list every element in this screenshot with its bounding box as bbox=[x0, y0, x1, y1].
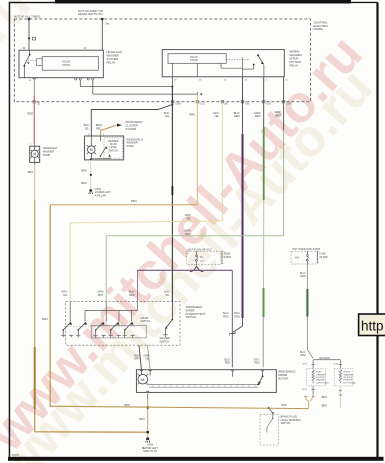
svg-text:PANEL: PANEL bbox=[314, 27, 324, 31]
svg-text:RIGHT: RIGHT bbox=[344, 372, 351, 374]
brake fluid level warning switch tap bbox=[268, 407, 274, 418]
left heater feed pin bbox=[302, 360, 315, 369]
wire BLU/GRY: switch to wiper motor bbox=[139, 345, 141, 370]
wiper switch contact 4 bbox=[110, 322, 120, 335]
label WIPER SWITCH bbox=[141, 317, 151, 323]
svg-text:HEADLIGHTS ON: HEADLIGHTS ON bbox=[78, 12, 103, 16]
relay K1 bottom terminal circles bbox=[75, 78, 94, 80]
switch feed stubs bbox=[70, 302, 137, 322]
wiper switch contact 5 bbox=[124, 322, 134, 335]
motor ground pin bbox=[146, 391, 149, 399]
pump pin 4 bbox=[88, 134, 91, 136]
svg-text:WHT: WHT bbox=[98, 294, 104, 297]
right washer nozzle heater (dashed box) bbox=[334, 368, 356, 386]
label BLU/GRN (lower) bbox=[300, 351, 306, 357]
pump pin 1 (bottom) bbox=[88, 162, 90, 164]
svg-text:NCA: NCA bbox=[302, 388, 307, 391]
right heater feed pin bbox=[333, 360, 342, 369]
motor linkage (hatched bar) bbox=[147, 383, 260, 387]
svg-text:E-1C: E-1C bbox=[200, 104, 206, 106]
label BLK/YEL (at pump) bbox=[84, 124, 90, 130]
svg-text:5A: 5A bbox=[200, 256, 203, 259]
svg-text:RELAY: RELAY bbox=[290, 63, 299, 67]
svg-text:MOTOR: MOTOR bbox=[278, 377, 288, 381]
wire: K1 pin to BRN connector (y=94.1) bbox=[93, 80, 202, 96]
switch linkage (dashed) bbox=[64, 326, 136, 328]
label GRN/WHT (mid) bbox=[185, 229, 192, 236]
switch internal bus bbox=[85, 309, 138, 311]
label GRY/YEL (panel exit) bbox=[213, 111, 220, 118]
relay K1: headlight washer system relay (box) bbox=[19, 50, 103, 77]
svg-text:PUMP: PUMP bbox=[127, 144, 135, 148]
svg-text:HEATER: HEATER bbox=[316, 379, 325, 382]
svg-text:G1/8: G1/8 bbox=[266, 104, 272, 106]
svg-text:T8a: T8a bbox=[105, 23, 110, 26]
label BLU/RED (at switch) bbox=[129, 291, 135, 297]
svg-text:BRN: BRN bbox=[28, 171, 33, 174]
svg-text:YEL: YEL bbox=[165, 294, 170, 297]
left heater ground pin bbox=[302, 386, 315, 395]
washer fluid level switch (dashed box) bbox=[104, 138, 123, 158]
fuse box 2: HOT IN RUN AND START (dashed) bbox=[291, 248, 321, 264]
svg-text:YEL: YEL bbox=[63, 294, 68, 297]
svg-text:BRN: BRN bbox=[322, 405, 327, 408]
wire BRN: headlight pump down to G408 run bbox=[35, 165, 148, 432]
wire: K1 pin to K2 junction (y=86.5) bbox=[80, 77, 173, 88]
wire BRN: connector down, left at y=204.7, down at x=50.2 to ground bus bbox=[42, 94, 197, 407]
svg-text:SIDE OF I/P: SIDE OF I/P bbox=[143, 450, 157, 453]
label BLU/RED (panel exit) bbox=[234, 111, 240, 118]
windshield wiper motor (box) bbox=[136, 370, 276, 393]
label GRY/YEL (at switch) bbox=[61, 291, 68, 297]
fuse F1 5A bbox=[196, 251, 205, 264]
svg-text:M: M bbox=[141, 377, 144, 382]
label GRY/YEL (mid) bbox=[185, 213, 192, 220]
wire BRN/RED to instrument cluster (arrow) bbox=[101, 124, 122, 136]
svg-text:RED: RED bbox=[254, 362, 259, 365]
wire BRN: motor to ground bus and G408 bbox=[147, 399, 149, 438]
relay K2 pin number labels bbox=[174, 80, 289, 82]
svg-text:STATE: STATE bbox=[190, 59, 198, 62]
label FUSE 5 AMP with bracket bbox=[222, 252, 231, 264]
svg-text:YEL: YEL bbox=[165, 114, 170, 118]
svg-text:A-PILLAR: A-PILLAR bbox=[95, 194, 106, 197]
brake switch contact bbox=[267, 418, 274, 433]
label GRN/RED (panel exit) bbox=[254, 111, 261, 118]
svg-text:BRN: BRN bbox=[81, 170, 86, 173]
wire RED: relay K1 to headlight washer pump bbox=[28, 80, 35, 144]
fuse S6 (in-panel fuse mark) bbox=[28, 37, 36, 40]
svg-text:BRN: BRN bbox=[322, 396, 327, 399]
svg-text:HOT AT ALL TIMES: HOT AT ALL TIMES bbox=[14, 14, 40, 18]
label BLU/GRY bbox=[134, 354, 140, 360]
label BLK/YEL (panel exit) bbox=[164, 111, 170, 118]
svg-text:YEL: YEL bbox=[84, 127, 89, 130]
svg-text:WIPER: WIPER bbox=[186, 308, 195, 312]
headlight washer pump (box) bbox=[30, 143, 40, 162]
right heater ground stub bbox=[322, 386, 342, 408]
relay K2: wiper/washer intermittent relay (box) bbox=[162, 50, 284, 77]
svg-text:BRN: BRN bbox=[282, 404, 287, 407]
svg-text:NOZZLE: NOZZLE bbox=[344, 377, 353, 379]
wire GRY/YEL: panel down, left at y=221.5, down at x=70.2 into wiper switch bbox=[70, 103, 222, 302]
svg-text:SOLID: SOLID bbox=[62, 59, 70, 63]
svg-text:RED: RED bbox=[129, 294, 134, 297]
svg-text:M: M bbox=[33, 152, 36, 156]
svg-text:5 AMP: 5 AMP bbox=[224, 256, 231, 259]
ground fork splice bbox=[304, 395, 315, 409]
svg-text:WHT: WHT bbox=[185, 232, 191, 236]
svg-text:NCA: NCA bbox=[333, 363, 338, 366]
svg-text:G2/9: G2/9 bbox=[286, 104, 292, 106]
washer fluid level switch contact bbox=[90, 136, 111, 160]
svg-text:WINDSHIELD: WINDSHIELD bbox=[186, 305, 203, 309]
label GRY/RED (at motor) bbox=[253, 358, 259, 364]
svg-text:WASHER: WASHER bbox=[316, 373, 326, 376]
svg-text:LEFT: LEFT bbox=[316, 372, 322, 374]
svg-text:BLU/GRN: BLU/GRN bbox=[319, 358, 330, 360]
svg-text:HEATER: HEATER bbox=[344, 379, 353, 382]
wire GRN/WHT: relay K2 pin down, left at y=235.7, down into wiper switch bbox=[106, 77, 283, 302]
svg-text:HOT IN RUN AND START: HOT IN RUN AND START bbox=[293, 248, 321, 251]
relay K1 bottom pin (to headlight washer pump) bbox=[29, 78, 36, 82]
panel bottom connector crossings bbox=[33, 100, 285, 103]
wire BLK/YEL branch to windshield washer pump bbox=[91, 105, 172, 136]
svg-text:M: M bbox=[90, 148, 93, 152]
svg-text:YEL: YEL bbox=[186, 216, 191, 220]
node: CENTRAL ELECTRIC PANEL label bbox=[314, 20, 330, 31]
label WASHER FLUID LEVEL SWITCH bbox=[108, 140, 119, 153]
svg-text:YEL: YEL bbox=[145, 358, 150, 361]
switch inner box bbox=[91, 325, 146, 338]
svg-text:T2f: T2f bbox=[37, 104, 41, 106]
label GRN/YEL bbox=[144, 354, 151, 360]
headlight pump pin 2 (bottom) bbox=[30, 162, 35, 167]
svg-text:(OPTIONAL): (OPTIONAL) bbox=[344, 381, 357, 384]
svg-text:BRN: BRN bbox=[81, 182, 86, 185]
label: WIPER/WASHER INTERMITTENT RELAY bbox=[290, 49, 302, 67]
brake fluid level warning switch (dashed box) bbox=[260, 415, 279, 446]
relay K2 internal stubs bbox=[172, 63, 242, 77]
svg-text:15 AMP: 15 AMP bbox=[319, 256, 328, 259]
label BLK/YEL (at switch) bbox=[164, 291, 170, 297]
node: HOT W/ PARK OR HEADLIGHTS ON feed bbox=[78, 9, 110, 26]
ground bus BRN (y=407) bbox=[50, 404, 308, 408]
svg-text:(OPTIONAL): (OPTIONAL) bbox=[316, 381, 329, 384]
svg-text:BRN: BRN bbox=[42, 317, 48, 321]
svg-text:WASHER: WASHER bbox=[344, 373, 354, 376]
svg-text:SWITCH: SWITCH bbox=[109, 149, 119, 152]
svg-text:INTERMITTENT: INTERMITTENT bbox=[186, 312, 206, 316]
svg-text:RED: RED bbox=[96, 127, 101, 130]
pump pin 3 bbox=[101, 134, 105, 136]
labels BLU/RED BLU/RED (pair) bbox=[223, 312, 240, 318]
wire: feed to relay pin 11 bbox=[101, 19, 103, 50]
label FUSE (right fuse box) bbox=[318, 252, 329, 263]
label BRN/RED bbox=[96, 124, 102, 130]
wire BLK/YEL: junction to wiper switch bbox=[172, 87, 174, 303]
central electric panel (dashed box) bbox=[14, 19, 310, 102]
svg-text:GRN: GRN bbox=[300, 354, 306, 357]
svg-text:GRY: GRY bbox=[134, 358, 140, 361]
svg-text:RED: RED bbox=[223, 315, 228, 318]
svg-text:BRN: BRN bbox=[131, 199, 137, 203]
label GRN/WHT (panel exit) bbox=[275, 110, 282, 117]
splice connector (BLU/RED merge) bbox=[230, 332, 236, 336]
svg-text:15A: 15A bbox=[295, 257, 300, 260]
svg-text:T28/8: T28/8 bbox=[175, 104, 182, 106]
svg-text:HOT IN ON OR ACC: HOT IN ON OR ACC bbox=[188, 247, 212, 251]
washer switch contact bbox=[163, 302, 173, 337]
connector crossing labels bbox=[37, 104, 292, 106]
wire BLU/RED: relay K2 pin 24 down (heavy) bbox=[232, 77, 242, 333]
relay K1 contact bbox=[23, 50, 30, 77]
relay K1 coil link box bbox=[28, 59, 42, 66]
windshield wiper intermittent switch (dashed box) bbox=[66, 302, 180, 346]
ground G408 bbox=[142, 438, 159, 453]
http watermark box bbox=[359, 314, 385, 336]
svg-text:YEL: YEL bbox=[214, 114, 219, 118]
label WINDSHIELD WASHER PUMP bbox=[127, 137, 143, 148]
svg-text:RELAY: RELAY bbox=[107, 60, 116, 64]
washer pump motor M bbox=[87, 136, 96, 160]
svg-text:PUMP: PUMP bbox=[43, 153, 51, 157]
wire GRN/RED: relay K2 pin down to wiper motor bbox=[262, 77, 265, 368]
svg-text:NOZZLE: NOZZLE bbox=[316, 377, 325, 379]
wiper motor M bbox=[137, 370, 150, 385]
svg-text:RED: RED bbox=[225, 362, 230, 365]
svg-text:RED: RED bbox=[235, 315, 240, 318]
wiper switch contact 2 bbox=[77, 322, 87, 335]
svg-text:NCA: NCA bbox=[302, 363, 307, 366]
svg-text:63079: 63079 bbox=[12, 454, 20, 457]
motor pin cups bbox=[140, 370, 264, 371]
wiper switch contact 1 bbox=[62, 322, 72, 335]
svg-text:SWITCH: SWITCH bbox=[186, 315, 197, 319]
svg-text:SWITCH: SWITCH bbox=[281, 422, 291, 425]
wire: feed to relay pin 32 bbox=[28, 19, 30, 50]
svg-text:STATE: STATE bbox=[62, 63, 70, 67]
wire BLU/GRN: fuse 2 down to heater bus bbox=[307, 264, 313, 358]
motor park switch bbox=[233, 371, 264, 384]
wire GRN/YEL: switch to wiper motor bbox=[148, 345, 151, 370]
label WINDSHIELD WIPER MOTOR bbox=[278, 370, 296, 381]
node: HOT AT ALL TIMES feed bbox=[14, 14, 40, 20]
wire BRN: pump to ground G303 bbox=[81, 160, 91, 191]
label WINDSHIELD WIPER INTERMITTENT SWITCH bbox=[186, 305, 206, 319]
label INSTRUMENT CLUSTER SYSTEM bbox=[126, 120, 143, 131]
svg-text:RED: RED bbox=[255, 114, 261, 118]
fuse F2 bbox=[295, 251, 308, 264]
switch terminal ticks bbox=[61, 335, 135, 337]
label HEADLIGHT WASHER PUMP bbox=[43, 146, 58, 157]
svg-text:http: http bbox=[361, 319, 384, 334]
relay K1 solid state module bbox=[42, 57, 98, 70]
headlight washer pump motor M bbox=[31, 146, 39, 162]
svg-text:WHT: WHT bbox=[275, 113, 281, 117]
relay K2 contact bbox=[226, 54, 264, 76]
windshield washer pump assembly (box) bbox=[85, 136, 124, 160]
brace (fuse output merge) bbox=[190, 267, 203, 272]
left washer nozzle heater (dashed box) bbox=[307, 368, 329, 386]
label BLU/GRN (upper) bbox=[300, 272, 306, 278]
label BLU/RED (at motor) bbox=[224, 358, 230, 364]
wiper switch contact 3 bbox=[95, 322, 105, 335]
svg-text:GRN: GRN bbox=[300, 275, 306, 278]
svg-text:BRN: BRN bbox=[139, 418, 144, 421]
label BRAKE FLUID LEVEL WARNING SWITCH bbox=[281, 416, 301, 425]
svg-text:SYSTEM: SYSTEM bbox=[126, 127, 137, 131]
relay K2 solid state module bbox=[168, 54, 226, 64]
fuse box: HOT IN ON OR ACC (dashed) bbox=[187, 247, 222, 264]
svg-text:RED: RED bbox=[234, 114, 240, 118]
heater feed bus BLU/GRN bbox=[313, 358, 340, 360]
label: HEADLIGHT WASHER SYSTEM RELAY bbox=[107, 50, 123, 65]
svg-text:RED: RED bbox=[28, 112, 34, 116]
svg-text:BRN: BRN bbox=[125, 404, 130, 407]
ground G303 bbox=[89, 188, 112, 198]
label WASHER SWITCH bbox=[160, 337, 171, 343]
wire BLU/RED rail (y=270.3) to wiper switch and down bbox=[138, 270, 233, 367]
label GRN/WHT (at switch) bbox=[97, 291, 104, 297]
svg-text:SWITCH: SWITCH bbox=[141, 320, 151, 323]
svg-text:SWITCH: SWITCH bbox=[160, 340, 170, 343]
svg-text:BRN: BRN bbox=[190, 113, 196, 117]
